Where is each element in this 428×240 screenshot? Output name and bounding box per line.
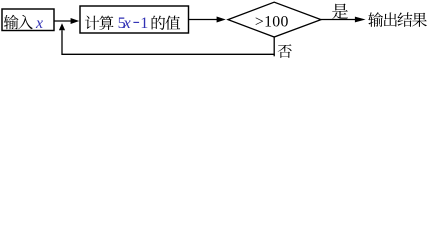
wire loop: diamond bottom down, left, then up xyxy=(62,30,274,54)
svg-text:x: x xyxy=(35,15,43,32)
label 输出结果 (output result) xyxy=(368,12,383,27)
svg-text:x: x xyxy=(123,14,132,32)
label 是 (yes) xyxy=(332,4,348,20)
arrowhead box1 to box2 xyxy=(71,18,80,24)
label minus (formula, blue) xyxy=(133,21,139,23)
label 否 (no) xyxy=(278,44,292,58)
label 输入 (input) xyxy=(4,15,19,30)
arrowhead loop up into wire box1-box2 xyxy=(59,23,65,30)
process box: input x xyxy=(2,9,54,31)
svg-text:1: 1 xyxy=(140,14,148,32)
decision diamond xyxy=(228,2,321,37)
wire diamond to output shaft xyxy=(321,19,356,21)
arrowhead diamond to output xyxy=(355,17,366,23)
wire box2 to diamond shaft xyxy=(189,19,218,21)
arrowhead box2 to diamond xyxy=(217,17,226,23)
label 的值 (the value of) xyxy=(152,16,166,30)
svg-text:>100: >100 xyxy=(255,14,289,31)
wire corner tail below loop xyxy=(273,54,275,56)
wire box1 to box2 shaft xyxy=(54,20,71,22)
label 计算 (compute) xyxy=(85,16,99,30)
process box: compute 5x-1 xyxy=(80,6,189,33)
